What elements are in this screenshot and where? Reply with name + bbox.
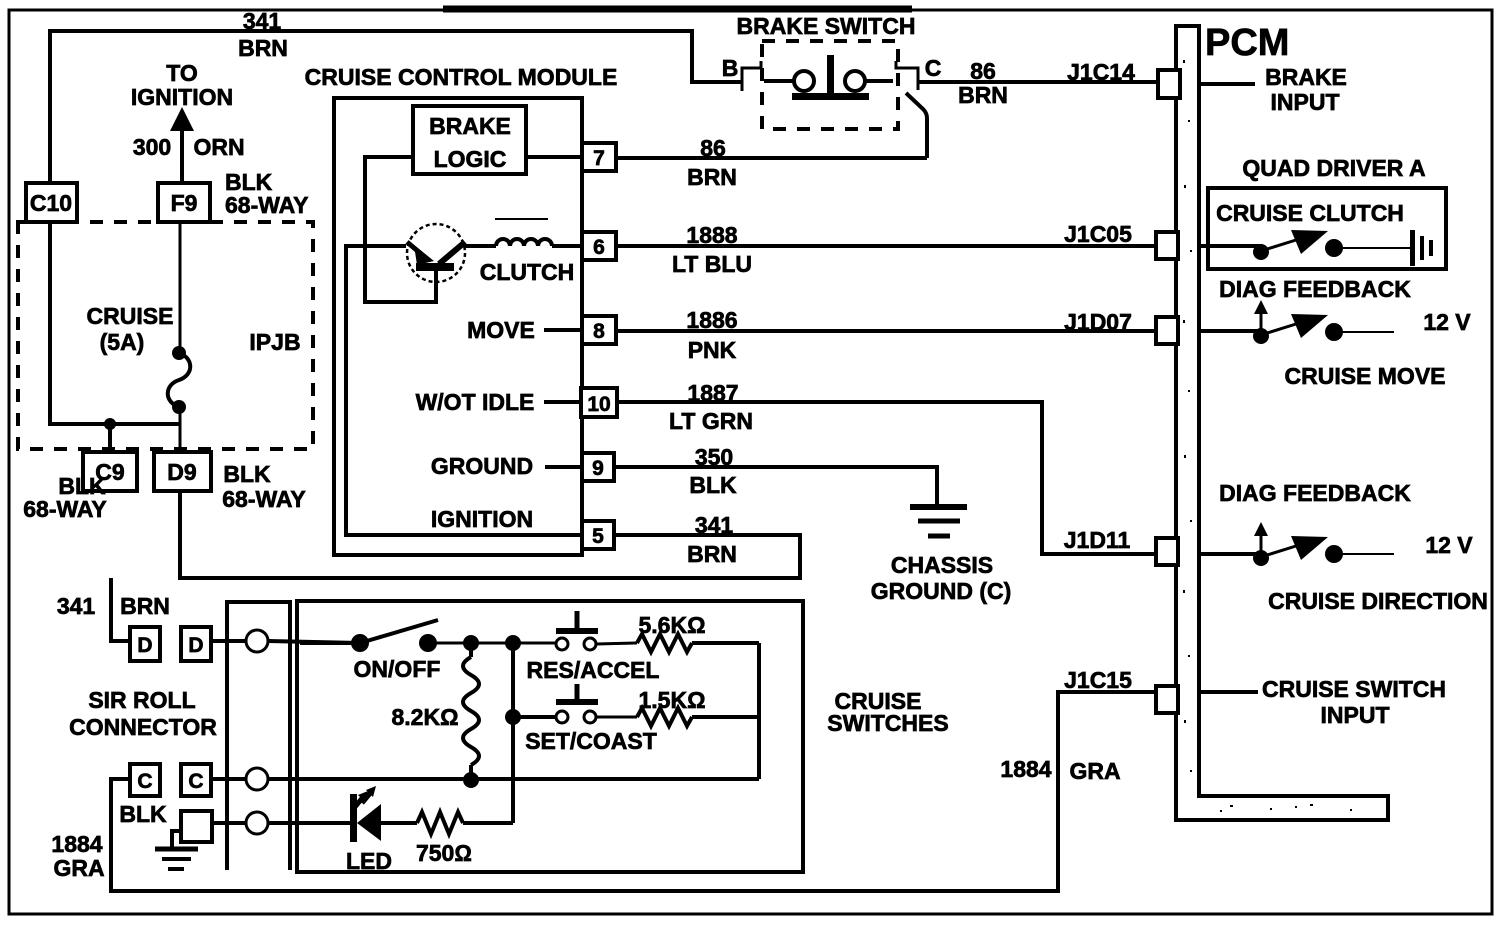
svg-text:68-WAY: 68-WAY — [23, 496, 107, 522]
svg-text:BRAKE: BRAKE — [1265, 64, 1347, 90]
svg-text:J1C05: J1C05 — [1064, 221, 1132, 247]
svg-text:300: 300 — [133, 134, 171, 160]
svg-text:TO: TO — [166, 60, 198, 86]
svg-text:86: 86 — [970, 58, 996, 84]
svg-text:DIAG FEEDBACK: DIAG FEEDBACK — [1219, 276, 1411, 302]
svg-text:12 V: 12 V — [1425, 532, 1473, 558]
svg-text:INPUT: INPUT — [1271, 89, 1340, 115]
svg-text:GROUND (C): GROUND (C) — [871, 578, 1012, 604]
svg-text:C: C — [137, 770, 152, 793]
svg-text:BRN: BRN — [120, 593, 170, 619]
svg-text:(5A): (5A) — [100, 329, 145, 355]
svg-text:CONNECTOR: CONNECTOR — [69, 714, 217, 740]
svg-text:CRUISE: CRUISE — [87, 303, 174, 329]
svg-text:341: 341 — [695, 512, 734, 538]
svg-text:W/OT IDLE: W/OT IDLE — [416, 389, 535, 415]
svg-text:B: B — [722, 55, 739, 81]
svg-text:12 V: 12 V — [1423, 309, 1471, 335]
svg-text:1884: 1884 — [1000, 756, 1051, 782]
svg-text:IGNITION: IGNITION — [131, 84, 233, 110]
svg-text:68-WAY: 68-WAY — [222, 486, 306, 512]
svg-text:BRN: BRN — [238, 35, 288, 61]
svg-text:F9: F9 — [171, 190, 198, 216]
svg-text:7: 7 — [593, 147, 605, 170]
svg-text:D: D — [188, 634, 203, 657]
svg-text:C10: C10 — [30, 190, 72, 216]
svg-text:ORN: ORN — [193, 134, 244, 160]
svg-text:68-WAY: 68-WAY — [225, 192, 309, 218]
svg-text:D: D — [137, 634, 152, 657]
svg-text:J1C14: J1C14 — [1067, 59, 1135, 85]
svg-text:CRUISE MOVE: CRUISE MOVE — [1284, 363, 1445, 389]
svg-text:86: 86 — [700, 135, 726, 161]
svg-text:BLK: BLK — [119, 801, 167, 827]
svg-text:DIAG FEEDBACK: DIAG FEEDBACK — [1219, 480, 1411, 506]
svg-text:750Ω: 750Ω — [416, 840, 472, 866]
svg-text:341: 341 — [57, 593, 96, 619]
svg-text:RES/ACCEL: RES/ACCEL — [527, 657, 660, 683]
svg-text:IPJB: IPJB — [249, 329, 300, 355]
svg-text:SWITCHES: SWITCHES — [827, 710, 948, 736]
svg-text:1886: 1886 — [686, 307, 737, 333]
svg-text:1888: 1888 — [686, 222, 737, 248]
svg-text:BRN: BRN — [687, 541, 737, 567]
svg-text:BLK: BLK — [689, 472, 737, 498]
svg-text:10: 10 — [587, 393, 610, 416]
svg-text:LED: LED — [346, 848, 392, 874]
svg-text:CRUISE SWITCH: CRUISE SWITCH — [1262, 676, 1446, 702]
svg-text:BRAKE: BRAKE — [429, 113, 511, 139]
svg-text:CRUISE DIRECTION: CRUISE DIRECTION — [1268, 588, 1488, 614]
svg-text:INPUT: INPUT — [1321, 702, 1390, 728]
svg-text:CRUISE CONTROL MODULE: CRUISE CONTROL MODULE — [305, 64, 618, 90]
svg-text:SET/COAST: SET/COAST — [525, 728, 657, 754]
svg-text:C: C — [925, 55, 942, 81]
svg-text:1887: 1887 — [687, 380, 738, 406]
svg-text:PCM: PCM — [1205, 22, 1289, 64]
svg-text:LOGIC: LOGIC — [434, 146, 507, 172]
svg-text:BRN: BRN — [687, 164, 737, 190]
svg-text:5: 5 — [592, 525, 604, 548]
svg-text:MOVE: MOVE — [467, 317, 535, 343]
svg-text:PNK: PNK — [688, 337, 737, 363]
svg-text:J1D11: J1D11 — [1064, 527, 1131, 553]
svg-text:1884: 1884 — [51, 831, 102, 857]
svg-text:8.2KΩ: 8.2KΩ — [391, 704, 458, 730]
svg-text:GRA: GRA — [53, 855, 104, 881]
svg-text:8: 8 — [593, 320, 605, 343]
svg-text:GRA: GRA — [1069, 758, 1120, 784]
svg-text:QUAD DRIVER A: QUAD DRIVER A — [1242, 155, 1425, 181]
svg-text:341: 341 — [243, 8, 282, 34]
svg-text:9: 9 — [592, 457, 604, 480]
svg-text:LT GRN: LT GRN — [669, 408, 753, 434]
svg-text:D9: D9 — [167, 459, 196, 485]
svg-text:C: C — [188, 770, 203, 793]
svg-text:CHASSIS: CHASSIS — [891, 552, 993, 578]
svg-text:J1C15: J1C15 — [1064, 667, 1132, 693]
svg-text:ON/OFF: ON/OFF — [354, 656, 441, 682]
svg-text:GROUND: GROUND — [431, 453, 533, 479]
svg-text:CRUISE CLUTCH: CRUISE CLUTCH — [1216, 200, 1404, 226]
svg-text:6: 6 — [593, 236, 605, 259]
svg-text:LT BLU: LT BLU — [672, 251, 752, 277]
svg-text:BLK: BLK — [223, 461, 271, 487]
svg-text:5.6KΩ: 5.6KΩ — [638, 612, 705, 638]
svg-text:350: 350 — [695, 444, 733, 470]
svg-text:1.5KΩ: 1.5KΩ — [638, 687, 705, 713]
svg-text:IGNITION: IGNITION — [431, 506, 533, 532]
svg-text:SIR ROLL: SIR ROLL — [88, 687, 195, 713]
svg-text:CLUTCH: CLUTCH — [480, 259, 575, 285]
svg-text:J1D07: J1D07 — [1064, 309, 1132, 335]
svg-text:BRAKE SWITCH: BRAKE SWITCH — [737, 13, 916, 39]
svg-text:BRN: BRN — [958, 82, 1008, 108]
